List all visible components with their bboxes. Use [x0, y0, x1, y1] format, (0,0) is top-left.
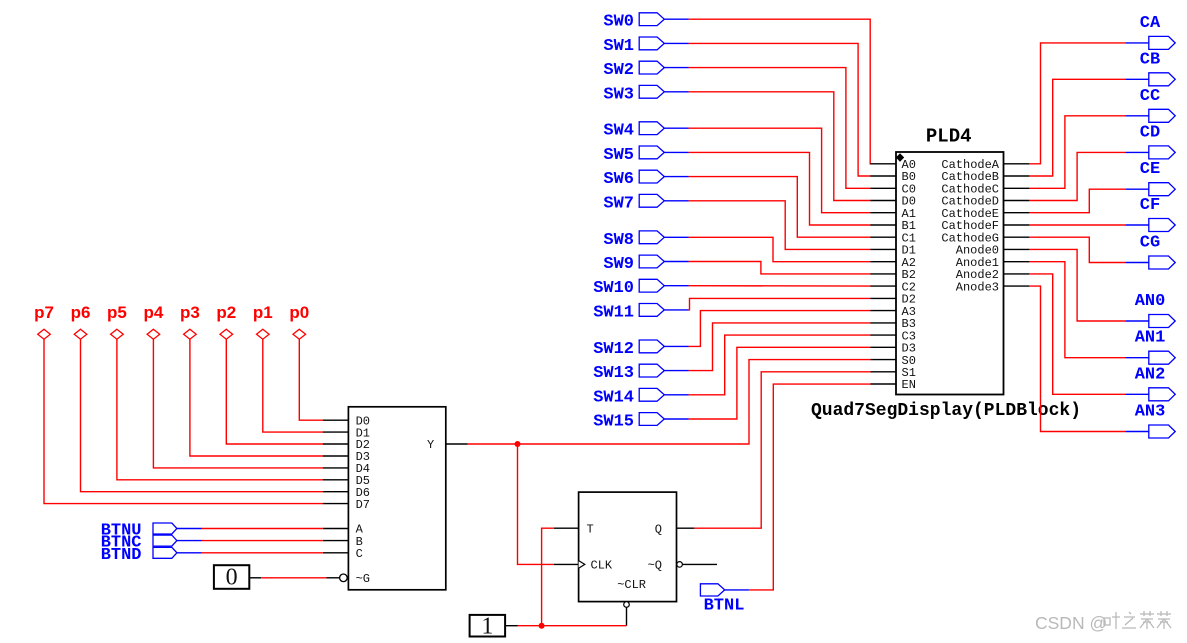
PLD right pin CathodeB — [941, 170, 1029, 184]
wire constant 1 to flip-flop T and ~CLR — [505, 528, 626, 626]
output port tag CE — [1140, 160, 1175, 196]
mux pin Y — [427, 438, 468, 452]
output port tag AN1 — [1135, 329, 1176, 365]
output port tag CA — [1140, 14, 1175, 50]
svg-text:SW15: SW15 — [593, 413, 634, 432]
wire flip-flop Q to PLD S1 — [694, 372, 870, 528]
mux pin D4 — [323, 462, 370, 476]
wire p7 to mux pin D7 — [44, 339, 323, 503]
PLD left pin D1 — [870, 244, 916, 258]
wire p1 to mux pin D1 — [263, 339, 323, 432]
wire p6 to mux pin D6 — [81, 339, 324, 491]
svg-text:SW3: SW3 — [603, 85, 634, 104]
IO marker p5 — [107, 303, 127, 339]
svg-text:~G: ~G — [356, 572, 370, 586]
wire PLD Anode2 to output AN2 — [1029, 274, 1148, 394]
svg-text:PLD4: PLD4 — [926, 126, 972, 148]
wire BTNL to PLD EN — [725, 384, 871, 590]
mux pin C — [323, 547, 363, 561]
wire SW10 to PLD pin C2 — [664, 285, 870, 287]
svg-text:0: 0 — [226, 565, 238, 591]
svg-text:p6: p6 — [71, 303, 91, 322]
svg-text:~Q: ~Q — [648, 559, 662, 573]
svg-text:CG: CG — [1140, 234, 1160, 253]
svg-text:EN: EN — [902, 378, 916, 392]
input port tag SW9 — [603, 255, 664, 274]
wire p0 to mux pin D0 — [299, 339, 323, 420]
svg-text:SW12: SW12 — [593, 340, 634, 359]
wire PLD CathodeB to output CB — [1029, 79, 1148, 176]
svg-text:CSDN @: CSDN @ — [1035, 613, 1107, 633]
wire SW3 to PLD pin D0 — [664, 92, 870, 201]
input port tag SW10 — [593, 279, 664, 298]
PLD origin marker diamond — [896, 153, 904, 161]
svg-text:SW5: SW5 — [603, 146, 634, 165]
wire SW1 to PLD pin B0 — [664, 43, 870, 176]
watermark CSDN @叶之蓁蓁 — [1035, 611, 1171, 633]
wire SW4 to PLD pin A1 — [664, 128, 870, 213]
mux pin D5 — [323, 474, 370, 488]
output port tag CG — [1140, 234, 1175, 270]
wire p2 to mux pin D2 — [226, 339, 323, 444]
PLD right pin CathodeF — [941, 219, 1029, 233]
input port tag SW1 — [603, 37, 664, 56]
svg-text:SW9: SW9 — [603, 255, 634, 274]
mux pin B — [323, 535, 363, 549]
mux pin D7 — [323, 498, 370, 512]
mux pin D1 — [323, 426, 370, 440]
PLD left pin C1 — [870, 231, 916, 245]
wire SW2 to PLD pin C0 — [664, 68, 870, 189]
wire SW13 to PLD pin B3 — [664, 323, 870, 371]
wire SW7 to PLD pin D1 — [664, 201, 870, 250]
output port tag CD — [1140, 123, 1175, 159]
multiplexer block (8-to-1 mux) — [348, 407, 445, 590]
flip-flop pin ~Q with bubble (unconnected stub) — [648, 559, 717, 573]
svg-text:AN1: AN1 — [1135, 329, 1166, 348]
wire p3 to mux pin D3 — [190, 339, 323, 456]
svg-text:SW7: SW7 — [603, 194, 634, 213]
svg-text:CLK: CLK — [591, 559, 613, 573]
wire BTNC to mux — [177, 540, 323, 542]
junction on constant-1 net — [539, 623, 545, 629]
PLD left pin A3 — [870, 305, 916, 319]
mux pin D6 — [323, 486, 370, 500]
input port tag SW13 — [593, 364, 664, 383]
wire SW9 to PLD pin B2 — [664, 262, 870, 274]
flip-flop pin Q — [655, 522, 695, 536]
svg-text:p2: p2 — [216, 303, 236, 322]
wire SW5 to PLD pin B1 — [664, 152, 870, 225]
mux pin D3 — [323, 450, 370, 464]
PLD left pin C3 — [870, 329, 916, 343]
flip-flop pin CLK with edge triangle — [554, 559, 613, 573]
wire constant 0 to mux ~G — [249, 577, 326, 579]
constant value 0 — [214, 565, 249, 591]
PLD left pin A1 — [870, 207, 916, 221]
svg-text:C: C — [356, 547, 363, 561]
wire PLD CathodeA to output CA — [1029, 43, 1148, 164]
svg-text:CC: CC — [1140, 87, 1160, 106]
mux pin A — [323, 523, 364, 537]
svg-text:AN0: AN0 — [1135, 292, 1166, 311]
svg-text:BTND: BTND — [101, 546, 142, 565]
output port tag CB — [1140, 50, 1175, 86]
output port tag AN3 — [1135, 403, 1176, 439]
svg-text:SW8: SW8 — [603, 231, 634, 250]
svg-text:T: T — [587, 522, 594, 536]
flip-flop pin ~CLR with bubble — [617, 578, 646, 626]
svg-text:SW0: SW0 — [603, 13, 634, 32]
input port tag SW0 — [603, 13, 664, 32]
IO marker p6 — [71, 303, 91, 339]
T flip-flop block — [579, 492, 677, 601]
wire SW14 to PLD pin C3 — [664, 335, 870, 395]
IO marker p1 — [253, 303, 273, 339]
wire PLD Anode1 to output AN1 — [1029, 262, 1148, 358]
input port tag SW7 — [603, 194, 664, 213]
PLD left pin B0 — [870, 170, 916, 184]
PLD right pin CathodeG — [941, 231, 1029, 245]
PLD right pin Anode1 — [956, 256, 1030, 270]
input port tag SW12 — [593, 340, 664, 359]
wire BTNU to mux — [177, 528, 323, 530]
wire SW15 to PLD pin D3 — [664, 347, 870, 419]
mux pin ~G with bubble — [327, 572, 371, 586]
PLD left pin C2 — [870, 280, 916, 294]
output port tag AN2 — [1135, 365, 1176, 401]
IO marker p7 — [34, 303, 54, 339]
PLD left pin EN — [870, 378, 916, 392]
PLD block U1 PLD4 (Quad7SegDisplay) — [811, 126, 1081, 422]
IO marker p4 — [143, 303, 163, 339]
svg-text:1: 1 — [481, 613, 493, 639]
svg-text:SW13: SW13 — [593, 364, 634, 383]
svg-text:CE: CE — [1140, 160, 1160, 179]
PLD left pin A2 — [870, 256, 916, 270]
svg-text:CA: CA — [1140, 14, 1161, 33]
svg-text:SW10: SW10 — [593, 279, 634, 298]
PLD left pin S1 — [870, 366, 916, 380]
output port tag CF — [1140, 196, 1175, 232]
PLD right pin Anode2 — [956, 268, 1030, 282]
wire Y net to flip-flop CLK — [518, 444, 554, 564]
mux pin D0 — [323, 414, 370, 428]
input port tag SW8 — [603, 231, 664, 250]
svg-text:SW2: SW2 — [603, 61, 634, 80]
wire PLD CathodeE to output CE — [1029, 189, 1148, 213]
PLD right pin CathodeC — [941, 183, 1029, 197]
input port tag SW5 — [603, 146, 664, 165]
PLD left pin D2 — [870, 293, 916, 307]
input port tag SW14 — [593, 388, 664, 407]
input port tag SW2 — [603, 61, 664, 80]
PLD left pin S0 — [870, 354, 916, 368]
output port tag AN0 — [1135, 292, 1176, 328]
svg-text:CB: CB — [1140, 50, 1160, 69]
PLD right pin Anode3 — [956, 280, 1030, 294]
wire SW12 to PLD pin A3 — [664, 311, 870, 347]
wire PLD Anode3 to output AN3 — [1029, 286, 1148, 431]
wire PLD CathodeD to output CD — [1029, 152, 1148, 200]
PLD right pin CathodeD — [941, 195, 1029, 209]
svg-text:Y: Y — [427, 438, 434, 452]
wire PLD Anode0 to output AN0 — [1029, 249, 1148, 321]
svg-text:p5: p5 — [107, 303, 127, 322]
wire p4 to mux pin D4 — [153, 339, 323, 468]
PLD left pin C0 — [870, 183, 916, 197]
wire PLD CathodeC to output CC — [1029, 116, 1148, 189]
svg-text:p0: p0 — [289, 303, 309, 322]
IO marker p2 — [216, 303, 236, 339]
svg-text:p1: p1 — [253, 303, 273, 322]
PLD right pin Anode0 — [956, 244, 1030, 258]
PLD left pin A0 — [870, 158, 916, 172]
svg-text:CF: CF — [1140, 196, 1160, 215]
svg-text:SW11: SW11 — [593, 303, 634, 322]
input port tag BTNC — [101, 534, 177, 553]
PLD right pin CathodeA — [941, 158, 1029, 172]
wire SW11 to PLD pin D2 — [664, 298, 870, 310]
svg-text:BTNL: BTNL — [704, 597, 745, 616]
junction on Y net — [515, 441, 521, 447]
svg-text:SW1: SW1 — [603, 37, 634, 56]
wire p5 to mux pin D5 — [117, 339, 323, 480]
flip-flop pin T — [554, 522, 594, 536]
output port tag CC — [1140, 87, 1175, 123]
input port tag SW15 — [593, 413, 664, 432]
svg-text:Q: Q — [655, 522, 662, 536]
input port tag SW6 — [603, 170, 664, 189]
input port tag SW11 — [593, 303, 664, 322]
svg-text:CD: CD — [1140, 123, 1160, 142]
IO marker p0 — [289, 303, 309, 339]
PLD right pin CathodeE — [941, 207, 1029, 221]
PLD left pin D3 — [870, 342, 916, 356]
svg-text:AN2: AN2 — [1135, 365, 1166, 384]
svg-text:p4: p4 — [143, 303, 163, 322]
PLD left pin D0 — [870, 195, 916, 209]
input port tag BTNU — [101, 522, 177, 541]
svg-text:AN3: AN3 — [1135, 403, 1166, 422]
PLD left pin B3 — [870, 317, 916, 331]
svg-text:p3: p3 — [180, 303, 200, 322]
constant value 1 — [470, 613, 506, 639]
svg-text:SW6: SW6 — [603, 170, 634, 189]
wire PLD CathodeG to output CG — [1029, 237, 1148, 262]
input port tag BTNL — [700, 584, 744, 616]
input port tag SW3 — [603, 85, 664, 104]
PLD left pin B2 — [870, 268, 916, 282]
svg-text:D7: D7 — [356, 498, 370, 512]
svg-text:SW4: SW4 — [603, 122, 634, 141]
svg-text:p7: p7 — [34, 303, 54, 322]
svg-text:Anode3: Anode3 — [956, 280, 999, 294]
svg-text:~CLR: ~CLR — [617, 578, 646, 592]
input port tag SW4 — [603, 122, 664, 141]
wire mux Y output to PLD S0 — [468, 360, 871, 444]
mux pin D2 — [323, 438, 370, 452]
input port tag BTND — [101, 546, 177, 565]
PLD left pin B1 — [870, 219, 916, 233]
wire SW0 to PLD pin A0 — [664, 19, 870, 164]
wire PLD CathodeF to output CF — [1029, 224, 1148, 226]
wire SW6 to PLD pin C1 — [664, 177, 870, 238]
wire BTND to mux — [177, 552, 323, 554]
svg-text:SW14: SW14 — [593, 388, 634, 407]
wire SW8 to PLD pin A2 — [664, 237, 870, 261]
IO marker p3 — [180, 303, 200, 339]
